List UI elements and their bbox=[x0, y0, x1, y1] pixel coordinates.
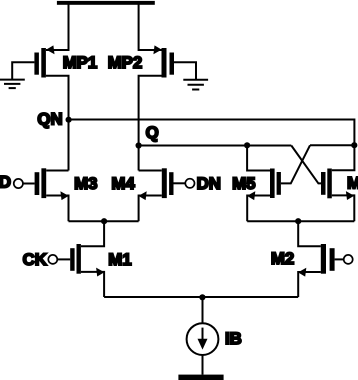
node QN wire bbox=[69, 120, 355, 146]
wire bottom M1 to M2 bbox=[104, 296, 298, 298]
transistor M2 bbox=[321, 244, 335, 274]
terminal CKB bbox=[344, 255, 353, 264]
transistor MP1 bbox=[34, 45, 54, 77]
node Q wire bbox=[139, 145, 292, 147]
current source IB bbox=[187, 323, 219, 355]
wire D to M3 gate bbox=[23, 183, 35, 185]
transistor M5 bbox=[270, 169, 281, 199]
svg-text:M1: M1 bbox=[108, 250, 131, 269]
svg-text:M2: M2 bbox=[271, 249, 294, 268]
transistor MP2 bbox=[153, 45, 174, 77]
transistor M6 bbox=[321, 169, 332, 199]
ground (MP1 gate) bbox=[0, 80, 25, 89]
svg-text:Q: Q bbox=[146, 123, 159, 142]
svg-text:M3: M3 bbox=[74, 174, 97, 193]
svg-text:QN: QN bbox=[37, 109, 62, 128]
transistor M3 bbox=[35, 168, 47, 198]
svg-text:M6: M6 bbox=[347, 173, 358, 192]
wire M2 source down bbox=[298, 272, 321, 297]
junction tail left bbox=[101, 218, 107, 224]
terminal D bbox=[14, 179, 23, 188]
wire MP1 drain down to M3 drain bbox=[46, 76, 69, 171]
svg-text:DN: DN bbox=[197, 174, 221, 193]
wire cross-couple Q to M6 gate bbox=[291, 146, 321, 184]
wire M4 gate to DN terminal bbox=[174, 182, 186, 184]
svg-text:MP2: MP2 bbox=[108, 53, 143, 72]
junction IB bbox=[199, 294, 205, 300]
wire MP1 gate to ground bbox=[12, 62, 34, 79]
wire M2 drain from tail bbox=[298, 221, 321, 246]
ground (MP2 gate) bbox=[183, 80, 208, 90]
wire MP2 source to VDD bbox=[139, 4, 162, 50]
wire tail M3-M4 bbox=[69, 220, 139, 222]
svg-text:M4: M4 bbox=[111, 174, 135, 193]
svg-text:D: D bbox=[0, 173, 11, 192]
wire MP1 source to VDD bbox=[46, 4, 69, 50]
wire M6 source to tail bbox=[332, 195, 355, 221]
terminal DN bbox=[185, 179, 194, 188]
svg-text:IB: IB bbox=[225, 329, 242, 348]
svg-text:MP1: MP1 bbox=[63, 53, 98, 72]
transistor M1 bbox=[70, 244, 81, 274]
svg-text:M5: M5 bbox=[232, 174, 255, 193]
svg-text:CK: CK bbox=[23, 250, 47, 269]
VDD rail bbox=[57, 1, 155, 5]
junction Q bbox=[136, 142, 142, 148]
junction Q-M5 drain bbox=[244, 142, 250, 148]
wire MP2 gate to ground bbox=[174, 62, 196, 80]
wire M3 source to tail bbox=[46, 196, 68, 222]
transistor M4 bbox=[162, 168, 174, 198]
wire M5 drain from Q bbox=[247, 145, 270, 170]
wire M4 source to tail bbox=[139, 196, 162, 222]
wire M3 drain bbox=[46, 170, 68, 172]
wire CK to M1 gate bbox=[57, 258, 70, 260]
wire tail M5-M6 bbox=[247, 220, 354, 222]
junction QN bbox=[66, 117, 72, 123]
wire M5 source to tail bbox=[247, 196, 270, 222]
junction QN-M6 drain bbox=[351, 142, 357, 148]
ground bar (bottom) bbox=[178, 375, 223, 380]
wire to IB bbox=[202, 297, 204, 323]
junction tail right bbox=[295, 218, 301, 224]
wire M2 gate to terminal bbox=[335, 258, 344, 260]
wire QN stub to cross-couple bbox=[310, 144, 354, 146]
wire M1 drain from tail bbox=[81, 221, 104, 246]
wire M6 drain to QN bbox=[332, 145, 355, 170]
terminal CK bbox=[48, 255, 57, 264]
wire M4 drain bbox=[139, 170, 162, 172]
wire M1 source down bbox=[81, 272, 104, 297]
wire cross-couple QN to M5 gate bbox=[281, 145, 310, 183]
wire IB to ground bbox=[202, 355, 204, 375]
wire MP2 drain down to M4 drain bbox=[139, 76, 167, 171]
